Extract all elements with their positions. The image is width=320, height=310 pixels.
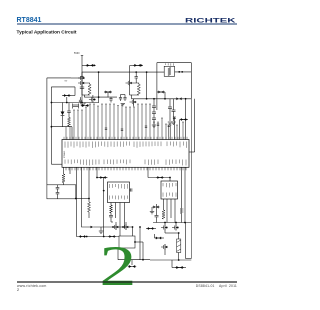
resistor R2 <box>62 167 65 185</box>
capacitor C16 <box>56 185 60 199</box>
footer rule <box>17 281 237 283</box>
wire pin b6 <box>147 167 149 177</box>
capacitor C24 pair <box>172 260 186 269</box>
capacitor C17 <box>130 188 132 191</box>
wire pin b8 long <box>184 167 186 222</box>
wire left loop top <box>47 77 71 79</box>
wire left loop inner <box>51 87 75 96</box>
wire CB tie <box>121 94 126 96</box>
wire input block right rail <box>190 63 192 99</box>
op-amp U2 driver body <box>108 182 130 203</box>
green page-number watermark 2 <box>99 235 136 298</box>
capacitor C13 pair <box>81 103 89 108</box>
wire pin b7 label <box>180 208 183 214</box>
ground GB <box>121 104 125 106</box>
wire 5VIN stub <box>81 56 83 73</box>
svg-text:RICHTEK: RICHTEK <box>185 17 236 24</box>
svg-text:2: 2 <box>99 235 136 298</box>
resistor R1 <box>68 112 71 126</box>
wire pin col b <box>173 117 176 140</box>
wire pin col c <box>179 120 181 140</box>
transistor Q4 <box>126 72 133 86</box>
transistor Q9 <box>161 244 168 255</box>
U3 pin labels <box>163 183 176 197</box>
section title <box>17 30 77 36</box>
transistor Q5 <box>130 99 137 107</box>
capacitor C5 pair <box>157 91 165 99</box>
wire L1 top <box>85 83 90 84</box>
svg-text:2: 2 <box>17 288 19 292</box>
transistor Q8 <box>172 223 179 231</box>
inductor L1 <box>88 84 91 95</box>
RICHTEK logo <box>185 17 236 24</box>
capacitor C23 pair <box>155 234 165 240</box>
wire U2 pins down <box>116 203 125 237</box>
wire drop phase B top <box>129 65 131 72</box>
transistor Q2 <box>78 80 85 86</box>
wire L2 top <box>133 79 139 84</box>
wire pin b1 <box>69 167 71 174</box>
svg-text:RT8841: RT8841 <box>64 150 66 158</box>
wire stageB node <box>165 231 180 234</box>
svg-text:www.richtek.com: www.richtek.com <box>17 284 47 288</box>
wire bus v3 <box>189 99 195 152</box>
svg-text:DS8841-01 April 2011: DS8841-01 April 2011 <box>196 284 237 288</box>
capacitor C15 pair <box>99 176 106 179</box>
transistor Q7 <box>161 223 168 231</box>
wire bus v1 <box>185 99 187 140</box>
wire phase B sense <box>146 71 148 100</box>
wire bus v2 <box>190 99 192 259</box>
wire fuse leads <box>175 71 192 73</box>
wire driver2 input <box>148 177 171 181</box>
wire left bus 1 <box>46 78 48 185</box>
wire VIN rail <box>82 71 164 73</box>
capacitor C7 <box>152 106 156 118</box>
node 5V label <box>65 81 68 83</box>
wire U3 pins down <box>164 199 176 223</box>
op-amp U1 RT8841 body <box>62 140 189 168</box>
capacitor C0 <box>80 81 84 103</box>
wire col1 <box>153 99 155 106</box>
wire stageA drop3 <box>139 226 141 260</box>
wire stageB right <box>186 223 192 259</box>
op-amp U3 driver body <box>161 181 178 199</box>
U2 pin labels <box>110 184 128 200</box>
capacitor C9 <box>168 99 172 125</box>
fuse F1 box <box>164 63 174 76</box>
transistor Q1 <box>71 72 85 81</box>
ground GA <box>81 104 85 106</box>
U1 part label <box>64 150 66 158</box>
transistor Q3 <box>89 95 96 103</box>
wire phase A out <box>84 96 117 98</box>
wire stageB rail <box>150 253 191 261</box>
capacitor C22 <box>155 204 159 223</box>
wire L2 out <box>130 86 139 99</box>
wire pin b2 long <box>77 167 120 237</box>
wire pin b5 <box>96 167 98 177</box>
ground G3 <box>99 227 103 233</box>
inductor L2 <box>137 84 140 95</box>
wire mid-left bottom <box>51 126 73 140</box>
wire IC bottom stubs <box>66 167 186 170</box>
ground G1 <box>152 125 156 127</box>
capacitor C21b pair <box>128 260 136 268</box>
capacitor C21 pair <box>108 235 115 238</box>
wire pin v line <box>103 178 105 237</box>
svg-text:5VIN: 5VIN <box>74 52 80 55</box>
capacitor C12 boxed <box>73 104 79 109</box>
capacitor C20 <box>109 216 113 223</box>
wire input block top <box>157 62 191 64</box>
capacitor C10 <box>171 99 175 125</box>
wire block out <box>75 198 90 200</box>
diode D1 <box>61 103 65 127</box>
capacitor C3b <box>109 97 112 102</box>
wire stageA mid <box>134 241 143 243</box>
capacitor C18 pair <box>156 176 163 179</box>
capacitor C2 pair <box>133 64 142 67</box>
capacitor C19 pair <box>152 206 160 212</box>
capacitor C3 pair <box>104 91 112 98</box>
wire stageA drop1 <box>132 227 134 236</box>
wire input block left rail <box>156 63 158 110</box>
U1 top pin labels <box>65 142 187 148</box>
footer page number <box>17 288 19 292</box>
wire mid-left rail <box>51 102 100 104</box>
svg-text:Typical Application Circuit: Typical Application Circuit <box>17 30 77 36</box>
footer document number and date <box>196 284 237 288</box>
resistor R4 <box>162 210 165 219</box>
wire driver1 input <box>96 177 107 179</box>
wire left bus 2 <box>51 87 62 164</box>
wire stageB top <box>153 222 191 224</box>
wire stageA loop <box>119 236 135 248</box>
U1 bottom pin labels <box>65 160 130 166</box>
capacitor C6 pair <box>175 97 182 100</box>
footer website <box>17 284 47 288</box>
capacitor CA2 <box>79 97 82 103</box>
wire top rail left <box>82 64 96 66</box>
capacitor C0b pair <box>62 94 75 103</box>
capacitor C11 pair <box>180 118 188 121</box>
wire stageA drop2 <box>142 242 144 261</box>
wire stageB row <box>146 227 156 230</box>
capacitor CB2 <box>119 95 122 102</box>
U1 bottom pin labels right <box>145 160 186 166</box>
capacitor R1c <box>67 103 71 113</box>
resistor R5 <box>110 203 113 216</box>
capacitor CB1 <box>135 71 138 80</box>
ground G2 <box>150 212 154 214</box>
wire phase A sense <box>98 71 100 102</box>
capacitor row ticks <box>105 124 159 130</box>
wire top rail right <box>130 64 143 66</box>
capacitor C1 pair <box>86 64 95 67</box>
wire pin b7 long <box>181 167 183 222</box>
node 5VIN label <box>74 52 80 55</box>
wire IC top stubs <box>64 137 187 140</box>
wire stageA row <box>93 226 133 228</box>
capacitor CA1 <box>80 72 83 80</box>
wire pin b4 <box>88 167 90 202</box>
wire stageA rail <box>118 248 150 260</box>
wire pin col a <box>168 125 170 140</box>
resistor R3 <box>88 202 91 218</box>
inductor L3 <box>177 233 181 253</box>
transistor Q6b <box>122 222 129 230</box>
wire L1 out <box>82 86 90 97</box>
capacitor CB3 <box>123 95 126 102</box>
svg-text:RT8841: RT8841 <box>17 17 42 24</box>
header part number text <box>17 17 42 24</box>
capacitor C14 pair <box>79 235 86 238</box>
wire IC pin comb <box>65 104 184 140</box>
transistor Q6 <box>112 222 119 230</box>
wire pin b3 long <box>82 167 94 228</box>
wire block loop <box>47 185 76 199</box>
wire output rail <box>132 98 192 100</box>
capacitor C8 <box>152 118 156 124</box>
header rule <box>17 23 237 25</box>
